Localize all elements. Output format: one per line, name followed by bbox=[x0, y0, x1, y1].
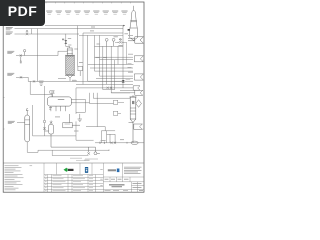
stream inlet label 2 bbox=[6, 32, 13, 35]
wire: vertical V1 bbox=[37, 29, 39, 82]
off-page flag F2 bbox=[134, 56, 143, 62]
off-page flag F1 bbox=[128, 37, 143, 43]
filter vessel V-102 (right) bbox=[129, 95, 136, 143]
stream inlet label 1 bbox=[6, 27, 13, 30]
drawing number cells text bbox=[133, 183, 144, 191]
drum bottom nozzles bbox=[49, 106, 66, 111]
micro text smudges bottom bbox=[55, 117, 124, 161]
drum top nozzle with mini flag bbox=[50, 91, 55, 97]
control valve CV1 bbox=[117, 39, 123, 44]
micro text smudges near mid components bbox=[79, 27, 128, 63]
wire: E-1 drop line bbox=[43, 86, 46, 131]
valve pair lower bbox=[87, 152, 100, 155]
green company logo bbox=[64, 168, 74, 172]
valve cluster on mid header bbox=[107, 87, 113, 89]
off-page flag F3 bbox=[134, 74, 143, 80]
engineering firm blue glyph bbox=[117, 169, 120, 173]
revision table row texts bbox=[45, 175, 93, 191]
off-page flag F5 bbox=[134, 124, 143, 129]
wire: feed line L2 bbox=[15, 33, 80, 35]
column bottom fittings bbox=[58, 78, 77, 81]
row-2 cell texts bbox=[105, 178, 129, 181]
wire: drain line bbox=[52, 150, 88, 155]
valve on L2 bbox=[26, 30, 28, 35]
instrument box I-1 bbox=[78, 66, 83, 76]
notes text block bbox=[5, 165, 33, 190]
seal pot V-103 bbox=[45, 121, 96, 152]
engineering firm logo text bbox=[108, 169, 116, 171]
wire: feed line L3 bbox=[16, 51, 68, 55]
drum right-end piping bbox=[71, 93, 130, 131]
valves on bottom header bbox=[110, 142, 116, 144]
drum tag text bbox=[58, 98, 65, 101]
off-page flag F3b bbox=[133, 86, 140, 90]
wire: feed line L1 bbox=[15, 28, 124, 30]
wire: C-102 bottom outlet bbox=[27, 142, 38, 152]
equipment title labels row (top strip) bbox=[46, 11, 127, 15]
wire: column top feed bbox=[66, 34, 70, 47]
wire: feed into C-102 bbox=[17, 122, 25, 124]
wire: feed line L4 bbox=[16, 77, 28, 81]
stream inlet label 4 bbox=[7, 73, 14, 76]
vent ground symbol G-1 bbox=[78, 114, 82, 121]
signature squiggle above title block bbox=[70, 158, 98, 161]
instrument bubble B1 bbox=[105, 38, 115, 46]
stream inlet label 5 bbox=[8, 121, 15, 124]
blue client logo bbox=[85, 167, 88, 173]
diverter diamond D-1 bbox=[136, 100, 142, 108]
instrument square I-2 bbox=[114, 100, 125, 104]
packed column C-101 (crosshatched) bbox=[65, 47, 75, 81]
package unit P-1 bbox=[63, 114, 80, 128]
drawing title text bbox=[109, 184, 125, 187]
flag labels (text smudges) bbox=[128, 35, 134, 123]
wires: bottom center distribution bbox=[38, 88, 144, 151]
inline pump/strainer oval bbox=[127, 141, 138, 144]
flash drum V-101 bbox=[48, 97, 72, 106]
drawing frame border bbox=[3, 2, 144, 192]
stream inlet label 3 bbox=[7, 51, 14, 54]
frame zone tick marks bbox=[3, 2, 144, 129]
column C-102 top nozzle bbox=[26, 109, 28, 115]
instrument square I-3 bbox=[114, 111, 122, 115]
wire: branch up to L1 bbox=[31, 29, 33, 34]
wire: long header L5 bbox=[28, 80, 123, 82]
off-page flag F4 bbox=[111, 90, 143, 95]
left column row texts bbox=[100, 169, 128, 191]
middle pipe ladder wires bbox=[76, 26, 134, 93]
stripper column C-102 bbox=[25, 115, 30, 142]
title block cell grid bbox=[44, 163, 144, 192]
valve on riser (dark) bbox=[122, 79, 131, 83]
wire: top header L0 bbox=[45, 25, 125, 27]
valve on L3 bbox=[20, 50, 26, 64]
valve on column feed (dark) bbox=[62, 38, 78, 49]
wire: riser beside C-102 bbox=[33, 105, 45, 136]
title block separator line bbox=[3, 162, 144, 164]
PDF badge overlay bbox=[0, 0, 45, 26]
valve on L4 bbox=[20, 76, 22, 78]
pump P-101 bbox=[94, 142, 104, 155]
small exchanger E-1 bbox=[39, 81, 44, 86]
wire: drop to drum feed L6 bbox=[30, 81, 52, 97]
vent stack S-1 (top right) bbox=[128, 6, 138, 41]
title block description paragraph bbox=[124, 167, 142, 174]
